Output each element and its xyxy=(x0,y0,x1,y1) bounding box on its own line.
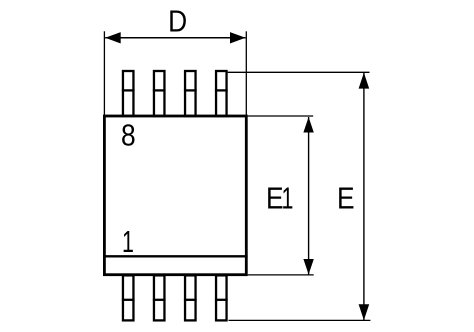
pin bottom 2 xyxy=(153,275,166,320)
pin bottom 1 xyxy=(122,275,135,320)
svg-text:1: 1 xyxy=(282,180,294,215)
pin top 1 xyxy=(122,71,135,116)
dimension E1 arrow up xyxy=(303,117,313,133)
dimension E1 line xyxy=(308,117,310,275)
dimension E extension line top xyxy=(228,71,370,73)
pin top 2 xyxy=(153,71,166,116)
dimension E1 arrow down xyxy=(303,259,313,275)
svg-text:8: 8 xyxy=(121,119,136,153)
dimension E arrow down xyxy=(359,304,370,320)
pin bottom 3 xyxy=(184,275,197,320)
pin top 3 xyxy=(184,71,197,116)
dimension D arrow left xyxy=(105,32,121,43)
dimension E1 extension line bottom xyxy=(248,274,314,276)
body seating-plane line xyxy=(103,255,248,257)
dimension E extension line bottom xyxy=(229,319,371,321)
dimension D line xyxy=(105,37,245,39)
svg-text:E: E xyxy=(337,182,355,216)
package body xyxy=(104,116,246,275)
dimension E1 label xyxy=(266,180,293,215)
svg-text:D: D xyxy=(168,4,187,38)
dimension D arrow right xyxy=(230,32,246,43)
dimension E1 extension line top xyxy=(248,115,314,117)
dimension E arrow up xyxy=(359,73,370,89)
dimension E line xyxy=(363,73,365,321)
dimension D extension line left xyxy=(103,31,105,116)
svg-text:1: 1 xyxy=(122,224,134,259)
pin bottom 4 xyxy=(215,275,228,320)
dimension D extension line right xyxy=(245,31,247,116)
pin top 4 xyxy=(215,71,228,116)
